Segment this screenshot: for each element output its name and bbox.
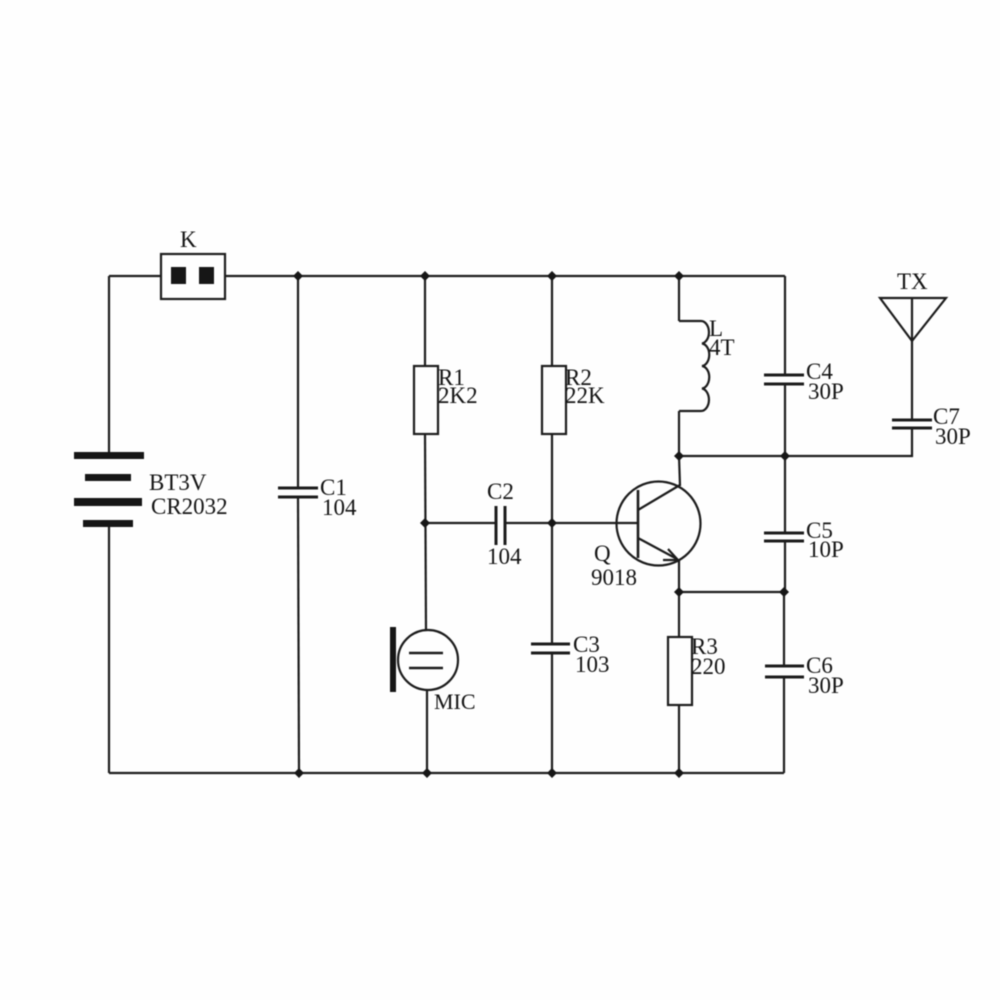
svg-text:104: 104	[322, 495, 357, 520]
svg-text:9018: 9018	[591, 565, 637, 590]
wire left rail lower	[108, 527, 110, 773]
wire C1 branch lower	[298, 498, 299, 773]
wire collector stub	[679, 456, 680, 486]
wire R2 to C3	[551, 434, 553, 643]
wire R3 branch lower	[678, 705, 680, 773]
wire top rail right segment	[225, 275, 785, 277]
node dot bottom rail MIC	[422, 768, 432, 778]
node dot C4 C5 junction	[780, 451, 790, 461]
wire MIC branch lower	[426, 690, 428, 773]
inductor L 4T	[679, 321, 709, 411]
svg-text:4T: 4T	[709, 335, 735, 360]
svg-text:104: 104	[487, 544, 522, 569]
node dot top rail L	[674, 271, 684, 281]
wire C2 lead right to base	[506, 522, 638, 524]
wire C7 to corner	[911, 429, 912, 456]
svg-text:C2: C2	[487, 479, 514, 504]
wire L to collector node	[678, 411, 680, 456]
svg-text:10P: 10P	[808, 537, 844, 562]
wire C5 to node	[784, 542, 786, 592]
switch K	[161, 254, 225, 299]
capacitor C1	[278, 488, 318, 497]
svg-text:22K: 22K	[565, 383, 605, 408]
resistor R2	[542, 366, 566, 434]
capacitor C3	[531, 644, 570, 653]
transistor Q 9018	[617, 482, 701, 566]
svg-text:2K2: 2K2	[438, 383, 478, 408]
wire left rail upper	[108, 276, 110, 452]
svg-text:CR2032: CR2032	[151, 494, 228, 519]
node dot collector junction	[674, 451, 684, 461]
resistor R3	[668, 637, 692, 705]
svg-text:30P: 30P	[808, 379, 844, 404]
node dot C2 left junction	[420, 518, 430, 528]
capacitor C6	[765, 666, 804, 677]
capacitor C5	[764, 533, 804, 541]
wire bottom rail	[109, 772, 784, 774]
svg-text:30P: 30P	[935, 424, 971, 449]
capacitor C4	[764, 375, 804, 384]
capacitor C2	[496, 506, 505, 545]
wire R1 branch upper	[424, 276, 426, 366]
wire C6 branch lower	[783, 678, 785, 773]
wire C3 branch lower	[551, 654, 553, 773]
node dot top rail R1	[420, 271, 430, 281]
battery BT3V CR2032	[74, 452, 144, 527]
wire antenna to C7	[911, 341, 913, 419]
wire C4 to node	[784, 385, 786, 456]
wire collector rail to antenna	[679, 455, 911, 457]
svg-text:30P: 30P	[808, 673, 844, 698]
wire R1 to MIC	[425, 434, 426, 631]
node dot bottom rail C1	[294, 768, 304, 778]
wire emitter stub	[678, 559, 680, 592]
wire R3 branch upper	[678, 592, 680, 637]
wire C1 branch upper	[297, 276, 299, 487]
svg-text:MIC: MIC	[434, 689, 476, 714]
svg-text:220: 220	[691, 654, 726, 679]
svg-text:TX: TX	[897, 269, 928, 294]
svg-text:103: 103	[575, 652, 610, 677]
node dot bottom rail C3	[547, 768, 557, 778]
svg-text:Q: Q	[594, 541, 611, 566]
microphone MIC	[390, 627, 458, 692]
svg-text:K: K	[180, 227, 197, 252]
antenna TX	[880, 298, 946, 341]
wire emitter rail	[679, 591, 784, 593]
node dot top rail C1	[293, 271, 303, 281]
wire L branch top	[678, 276, 680, 321]
node dot bottom rail R3	[674, 768, 684, 778]
resistor R1	[414, 366, 438, 434]
wire C6 branch upper	[783, 592, 785, 665]
wire R2 branch upper	[551, 276, 553, 366]
wire C4 branch top	[784, 276, 786, 374]
capacitor C7	[892, 420, 932, 428]
wire C2 lead left	[425, 522, 495, 524]
node dot top rail R2	[547, 271, 557, 281]
svg-text:BT3V: BT3V	[149, 470, 207, 495]
wire top rail left segment	[109, 275, 161, 277]
node dot emitter junction	[674, 587, 684, 597]
wire C5 branch upper	[784, 456, 786, 532]
node dot C5 C6 junction	[779, 587, 789, 597]
node dot base junction	[547, 518, 557, 528]
